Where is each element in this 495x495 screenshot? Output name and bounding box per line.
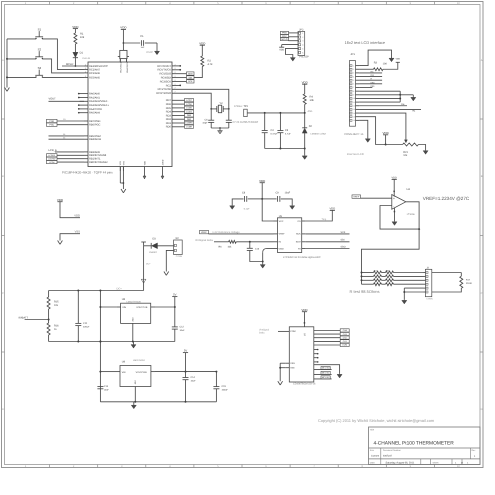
capacitor C4 <box>262 113 278 149</box>
svg-text:10uF: 10uF <box>285 191 291 194</box>
svg-text:VCAP: VCAP <box>146 51 153 54</box>
svg-text:10uF: 10uF <box>104 389 110 392</box>
switch S3 <box>35 66 43 78</box>
svg-text:VEE: VEE <box>290 367 295 370</box>
svg-text:RD0: RD0 <box>166 126 172 129</box>
wire bottom power rail <box>100 401 216 403</box>
svg-text:2: 2 <box>85 70 86 73</box>
resistor R15 <box>47 291 59 310</box>
svg-text:11: 11 <box>353 101 355 104</box>
connector J1 9V battery <box>174 237 183 258</box>
svg-text:RA1/AN1: RA1/AN1 <box>89 96 100 99</box>
svg-text:16: 16 <box>353 119 355 122</box>
svg-text:Delta: Delta <box>259 332 265 335</box>
svg-text:SDO: SDO <box>296 241 301 244</box>
power flag VDD LCD contrast <box>382 131 388 146</box>
svg-text:C12: C12 <box>180 325 185 328</box>
svg-text:RW: RW <box>371 74 374 77</box>
ground C1 <box>155 50 160 55</box>
U5 part label <box>283 256 321 259</box>
svg-text:VDD: VDD <box>279 48 284 51</box>
svg-text:D: D <box>481 408 483 411</box>
U7 part label <box>293 383 316 386</box>
svg-text:Pt100: Pt100 <box>466 282 473 285</box>
net label RXD pin RC5 <box>176 72 194 76</box>
multiplexer U7 CD4067 <box>289 327 314 382</box>
svg-text:SCK: SCK <box>188 80 193 83</box>
svg-text:LCD7: LCD7 <box>186 99 192 102</box>
svg-text:LCD6: LCD6 <box>186 103 192 106</box>
svg-text:LT1006: LT1006 <box>407 213 415 216</box>
wire S3 left <box>7 76 36 78</box>
wire U8 output node <box>155 306 176 308</box>
svg-text:B: B <box>481 175 483 178</box>
svg-text:VIN: VIN <box>122 371 126 374</box>
svg-text:Y2: Y2 <box>219 102 223 105</box>
net label pin RC3 <box>176 80 194 84</box>
net label PGD <box>47 118 85 123</box>
net label TXD pin RC4 <box>176 76 194 80</box>
svg-text:C15: C15 <box>222 385 227 388</box>
svg-text:220uF: 220uF <box>83 325 90 328</box>
svg-text:SCK: SCK <box>341 231 346 234</box>
svg-text:LCD4: LCD4 <box>49 161 55 164</box>
svg-text:C: C <box>481 292 483 295</box>
label VREF value <box>423 196 470 201</box>
wire LCD pin14 to wiper <box>359 113 406 140</box>
wire crystal ground rail <box>211 127 229 130</box>
svg-text:VDD: VDD <box>396 58 401 61</box>
svg-text:CONN-RECT 16: CONN-RECT 16 <box>344 133 364 136</box>
capacitor C7 <box>226 109 259 128</box>
svg-text:10k: 10k <box>310 99 315 102</box>
power flag VDD ISP pin4 <box>279 45 298 52</box>
svg-text:RC2: RC2 <box>166 84 172 87</box>
svg-text:RD4: RD4 <box>166 111 172 114</box>
net labels MUX address <box>314 367 332 380</box>
svg-text:VSS: VSS <box>122 160 125 165</box>
net label LCD_E group <box>47 149 85 164</box>
svg-text:RB0/INT0/AN12: RB0/INT0/AN12 <box>89 161 108 164</box>
ground battery minus <box>164 272 169 276</box>
svg-text:RC4/SDI: RC4/SDI <box>161 77 172 80</box>
svg-text:2: 2 <box>85 63 86 66</box>
svg-text:S3: S3 <box>38 66 42 70</box>
wire 9V feed vertical <box>99 291 101 402</box>
wire LCD pin13 <box>359 109 421 112</box>
regulator U8 LM317 <box>100 298 155 341</box>
net label SDI ADC <box>306 239 350 242</box>
copyright note <box>318 418 435 423</box>
svg-text:13: 13 <box>353 108 355 111</box>
power flag VEE U9 output <box>183 350 188 372</box>
svg-text:LCDE: LCDE <box>186 126 192 129</box>
potentiometer RV1 10k <box>386 140 426 157</box>
svg-text:RA3/AN3/VREF+: RA3/AN3/VREF+ <box>89 104 109 107</box>
ground J2 <box>402 300 407 304</box>
ground bottom rail <box>131 402 136 409</box>
wire AN1 rail <box>247 110 313 114</box>
svg-text:DC+: DC+ <box>146 262 151 265</box>
label 16x2 text LCD interface <box>345 40 386 45</box>
svg-text:RC3/SCK: RC3/SCK <box>160 80 172 83</box>
svg-text:TP1: TP1 <box>244 105 249 108</box>
svg-text:RD7: RD7 <box>166 99 172 102</box>
svg-text:LCD5: LCD5 <box>186 107 192 110</box>
wire S2 to RC1 pin <box>42 59 84 73</box>
ground MUX right <box>337 374 342 378</box>
ground ADC <box>260 262 265 268</box>
wire MUX common input <box>278 330 289 332</box>
svg-text:RB6/PGC: RB6/PGC <box>89 124 101 127</box>
wire ADC CS to VDD <box>306 210 333 221</box>
regulator U9 LM317 <box>100 359 155 402</box>
svg-text:CD4067BCM SO-16: CD4067BCM SO-16 <box>293 383 316 386</box>
svg-text:3: 3 <box>353 72 354 75</box>
power flag VDD above R2 <box>199 41 205 56</box>
microcontroller U1 PIC18F46K20 <box>78 59 176 171</box>
svg-text:VSS: VSS <box>290 362 295 365</box>
svg-text:RD6: RD6 <box>166 103 172 106</box>
svg-text:LM4040-1.2/BZ: LM4040-1.2/BZ <box>311 132 327 135</box>
svg-text:4067p4f: 4067p4f <box>383 454 392 457</box>
power stub VDD pin U1 <box>143 167 146 180</box>
svg-text:VDD: VDD <box>74 215 80 218</box>
net label SDO ADC <box>306 245 350 248</box>
svg-text:A: A <box>2 59 4 62</box>
svg-text:VREF: VREF <box>353 196 360 199</box>
svg-text:D: D <box>2 408 4 411</box>
svg-text:10uF: 10uF <box>180 329 186 332</box>
wire opamp feedback <box>380 206 419 230</box>
svg-text:VirtSignal Delta: VirtSignal Delta <box>195 239 213 242</box>
wire RB5 RB4 <box>49 133 85 139</box>
capacitor C14 <box>183 372 197 402</box>
svg-text:LCD4: LCD4 <box>186 110 192 113</box>
connector J2 RTD <box>424 267 433 301</box>
ground LCD data <box>411 97 416 101</box>
svg-text:SDI: SDI <box>341 239 345 242</box>
wires LCD pins 8-11 to ground <box>359 91 413 102</box>
svg-text:U9: U9 <box>122 360 126 363</box>
wire ADC SCK out <box>306 231 350 234</box>
power flag VDD ADC CS <box>329 208 335 211</box>
no-connect pins RC7 RC6 RC2 <box>176 65 181 86</box>
resonator Y1 <box>118 50 129 62</box>
svg-text:+: + <box>393 196 395 200</box>
ADC U5 LTC2450 <box>274 215 306 252</box>
wire opamp output to R network <box>362 229 420 272</box>
svg-text:ADJ: ADJ <box>132 317 135 321</box>
svg-text:Date:: Date: <box>370 461 376 464</box>
power flag VDD above Y1 <box>120 26 126 43</box>
svg-text:CS: CS <box>297 220 301 223</box>
capacitor C6 <box>202 109 214 128</box>
svg-text:6796Hz: 6796Hz <box>234 105 243 108</box>
svg-text:2: 2 <box>85 67 86 70</box>
svg-text:C14: C14 <box>191 376 196 379</box>
capacitor C12 <box>172 307 185 342</box>
svg-text:2: 2 <box>175 67 176 70</box>
wire J2 pin5 pin6 to ground <box>403 288 423 300</box>
label 16x2 text LCD <box>347 153 364 156</box>
svg-text:AN1: AN1 <box>308 110 314 113</box>
wire DC+ rail <box>49 287 144 291</box>
svg-text:RA0/AN0: RA0/AN0 <box>89 93 100 96</box>
svg-text:LTC2450 16 bit delta sigma ADC: LTC2450 16 bit delta sigma ADC <box>283 256 321 259</box>
resistor R4 10k <box>303 94 314 113</box>
capacitor C1 <box>140 35 157 50</box>
svg-text:2: 2 <box>353 68 354 71</box>
wire LCD pin1 to top rail <box>359 50 391 66</box>
ground mid rail <box>131 342 136 349</box>
crystal Y2 <box>210 102 229 113</box>
wire S2 left <box>7 58 36 60</box>
svg-text:MCU A0: MCU A0 <box>322 367 330 370</box>
svg-text:C13: C13 <box>104 385 109 388</box>
ground switch rail <box>5 88 10 92</box>
op-amp U4 LT1006 <box>392 188 415 216</box>
svg-text:RA6/OSC2: RA6/OSC2 <box>126 61 129 72</box>
capacitor C9 <box>262 191 292 205</box>
svg-text:COM: COM <box>290 330 295 333</box>
connector JP1 LCD <box>349 53 359 126</box>
svg-text:VDD: VDD <box>144 160 147 165</box>
svg-text:PIC18F44K20-46K20 - TQFP 44 pi: PIC18F44K20-46K20 - TQFP 44 pins <box>62 171 113 175</box>
wire VDD to ADC VCC <box>262 199 273 221</box>
svg-text:VOUT: VOUT <box>49 98 57 101</box>
svg-text:D1: D1 <box>80 52 84 55</box>
svg-text:VSS: VSS <box>119 160 122 165</box>
switch S2 <box>35 47 43 59</box>
svg-text:VCC: VCC <box>279 220 284 223</box>
capacitor C5 <box>277 113 291 149</box>
svg-text:16x2 text LCD: 16x2 text LCD <box>347 153 364 156</box>
svg-text:1N4007: 1N4007 <box>149 251 158 254</box>
svg-text:RA7/OSC1: RA7/OSC1 <box>120 61 123 72</box>
net label VREF opamp <box>352 195 392 199</box>
wire AN1 ground rail <box>265 148 306 156</box>
wire switch common rail <box>6 39 8 88</box>
ground RV1 <box>423 150 428 154</box>
svg-text:2: 2 <box>175 83 176 86</box>
ground crystal <box>218 130 223 134</box>
svg-text:RD1: RD1 <box>166 122 172 125</box>
svg-text:LCDRW: LCDRW <box>48 158 55 161</box>
wire S1 to RC2 pin <box>42 39 84 70</box>
svg-text:4.7uF: 4.7uF <box>285 132 291 135</box>
power flag VDD tie <box>57 198 80 218</box>
svg-text:4: 4 <box>353 75 354 78</box>
ground VSS under U1 <box>120 167 126 193</box>
power flag VDD MUX <box>301 308 307 327</box>
svg-text:0.47uF: 0.47uF <box>271 132 279 135</box>
svg-text:C: C <box>2 292 4 295</box>
svg-text:GND: GND <box>279 247 284 250</box>
svg-text:VOUT/TAB: VOUT/TAB <box>136 371 148 374</box>
ground C8 <box>230 205 235 209</box>
svg-text:1: 1 <box>353 64 354 67</box>
ground VSS tie <box>58 241 63 245</box>
svg-text:COM: COM <box>342 344 347 347</box>
svg-text:SDO: SDO <box>188 72 193 75</box>
svg-text:4-CHANNEL Pt100 THERMOMETER: 4-CHANNEL Pt100 THERMOMETER <box>374 440 455 446</box>
wire LCD pin15 to VDD node <box>359 117 386 145</box>
svg-text:CONN: CONN <box>426 298 433 301</box>
ground opamp <box>394 208 396 222</box>
svg-text:9VBATT: 9VBATT <box>19 316 29 319</box>
svg-text:8: 8 <box>353 90 354 93</box>
resistor R6 10k ADC input <box>195 239 274 249</box>
power flag DC+ at diode <box>141 242 146 246</box>
power flag VDD above R1 <box>72 25 78 33</box>
svg-text:ADJ: ADJ <box>134 380 137 384</box>
svg-text:RB4/AN11: RB4/AN11 <box>89 138 102 141</box>
label VirtSignal Delta MUX input <box>259 329 269 335</box>
node 9VBATT <box>19 309 50 323</box>
svg-text:5: 5 <box>353 79 354 82</box>
no-connect MUX pins <box>314 349 319 363</box>
ground C9 <box>290 205 295 209</box>
capacitor C15 <box>213 372 228 402</box>
svg-text:2: 2 <box>175 71 176 74</box>
svg-text:SDO: SDO <box>341 245 346 248</box>
svg-text:VREF: VREF <box>201 231 208 234</box>
capacitor C11 <box>75 291 90 342</box>
ground AN1 network <box>302 155 307 159</box>
svg-text:S1: S1 <box>38 27 42 31</box>
svg-text:MCLR: MCLR <box>66 63 73 66</box>
U1 part label <box>62 171 113 175</box>
svg-text:2: 2 <box>175 63 176 66</box>
svg-text:U8: U8 <box>122 298 126 301</box>
svg-text:VIN: VIN <box>122 306 126 309</box>
svg-text:MCU A1: MCU A1 <box>322 372 330 375</box>
svg-text:RA2/AN2/VREF-: RA2/AN2/VREF- <box>89 100 108 103</box>
svg-text:JP1: JP1 <box>350 53 355 56</box>
svg-text:R test 98.5Ohms: R test 98.5Ohms <box>350 289 380 294</box>
ground ISP <box>290 57 295 61</box>
svg-text:PGC: PGC <box>49 124 54 127</box>
wire MUX enable to ground <box>314 365 340 374</box>
wire ADC GND pin <box>262 249 274 263</box>
svg-text:4.7k: 4.7k <box>208 63 214 66</box>
svg-text:Tmp: Tmp <box>322 218 327 221</box>
svg-text:1uF: 1uF <box>141 46 145 49</box>
svg-text:2: 2 <box>175 91 176 94</box>
svg-text:0.1uF: 0.1uF <box>244 207 250 210</box>
wire VDD to C1 and resonator <box>123 42 141 50</box>
ground MUX left <box>278 381 283 385</box>
svg-text:VREF=1.2234V @27C: VREF=1.2234V @27C <box>423 196 470 201</box>
resistor R17 RTD sensor <box>432 273 473 293</box>
svg-text:7: 7 <box>353 86 354 89</box>
svg-text:VOUT/TAB: VOUT/TAB <box>136 306 148 309</box>
diode D1 <box>73 44 91 66</box>
wire S1 left <box>7 38 36 40</box>
svg-text:100uF: 100uF <box>222 389 229 392</box>
svg-text:LCDRS: LCDRS <box>48 154 55 157</box>
label CONN-RECT 16 <box>344 133 364 136</box>
svg-text:VREF: VREF <box>279 233 286 236</box>
svg-text:6: 6 <box>353 83 354 86</box>
capacitor C13 <box>97 385 109 391</box>
svg-text:2: 2 <box>175 79 176 82</box>
svg-text:Saturday, August 06, 2011: Saturday, August 06, 2011 <box>386 462 415 465</box>
wire LCD pin16 to ground <box>359 120 368 138</box>
svg-text:16x2 text LCD interface: 16x2 text LCD interface <box>345 40 386 45</box>
svg-text:10pF: 10pF <box>202 122 208 125</box>
svg-text:SDI: SDI <box>188 76 192 79</box>
svg-text:12: 12 <box>353 104 355 107</box>
svg-text:RC6/TX/CK: RC6/TX/CK <box>157 69 171 72</box>
svg-text:A: A <box>481 59 483 62</box>
svg-text:14: 14 <box>353 112 355 115</box>
svg-text:RD5: RD5 <box>166 107 172 110</box>
svg-text:PIC ISP: PIC ISP <box>300 56 309 59</box>
power flag VSS tie <box>60 231 80 241</box>
svg-text:PGD: PGD <box>49 120 54 123</box>
wire opamp output <box>406 202 420 230</box>
svg-text:JP2: JP2 <box>299 28 304 31</box>
svg-text:RD3: RD3 <box>166 114 172 117</box>
svg-text:RC1/AN6: RC1/AN6 <box>89 72 101 75</box>
connector JP2 PIC ISP <box>298 28 305 55</box>
svg-text:RA4/T0CKI: RA4/T0CKI <box>89 108 102 111</box>
svg-text:CONN: CONN <box>176 255 183 258</box>
wire S3 to RC0 pin <box>42 76 84 78</box>
wire U9 output node <box>155 371 217 373</box>
svg-text:Sheet: Sheet <box>433 461 439 464</box>
test point TP1 <box>234 105 249 117</box>
svg-text:MCLR: MCLR <box>282 38 288 41</box>
wire mid power rail <box>49 341 175 343</box>
label R test <box>350 289 380 294</box>
resistor R2 4.7k <box>194 56 213 78</box>
svg-text:LM317/ADJ: LM317/ADJ <box>133 359 145 362</box>
svg-text:Copyright (C) 2011 by Wichit S: Copyright (C) 2011 by Wichit Sirichote, … <box>318 418 435 423</box>
wire R network left bus <box>361 272 363 285</box>
svg-text:RC1/T1OSI: RC1/T1OSI <box>158 88 172 91</box>
wire RC1 to crystal right <box>176 89 229 105</box>
svg-text:IN: IN <box>279 241 282 244</box>
svg-text:LCD_E: LCD_E <box>49 149 58 152</box>
svg-text:10k: 10k <box>80 36 85 39</box>
svg-text:RD2: RD2 <box>166 118 172 121</box>
svg-text:1N4148: 1N4148 <box>82 57 91 60</box>
svg-text:2: 2 <box>175 87 176 90</box>
svg-text:9: 9 <box>353 94 354 97</box>
svg-text:C7 22 OUTPUT POINT: C7 22 OUTPUT POINT <box>233 121 259 124</box>
net label MCLR to ISP <box>281 38 299 41</box>
resistor R3 100 <box>359 58 400 71</box>
svg-text:10: 10 <box>353 97 355 100</box>
title block <box>369 427 481 465</box>
wire TP1 to AN1 rail <box>246 112 248 114</box>
ground opamp symbol <box>392 221 397 225</box>
svg-text:RC0/T1OSO: RC0/T1OSO <box>156 92 171 95</box>
svg-text:S2: S2 <box>38 47 42 51</box>
resistors R7-R14 test network <box>362 270 424 286</box>
net label PGD to ISP <box>281 31 299 34</box>
resistor R1 10k <box>74 33 85 45</box>
net labels LCD data pins RD0-RD7 <box>176 99 194 129</box>
capacitor C8 <box>232 191 262 210</box>
svg-text:RA5/AN4: RA5/AN4 <box>89 112 100 115</box>
svg-text:B: B <box>2 175 4 178</box>
shunt reference D2 LM4040 <box>302 113 326 149</box>
svg-text:100: 100 <box>383 62 388 65</box>
